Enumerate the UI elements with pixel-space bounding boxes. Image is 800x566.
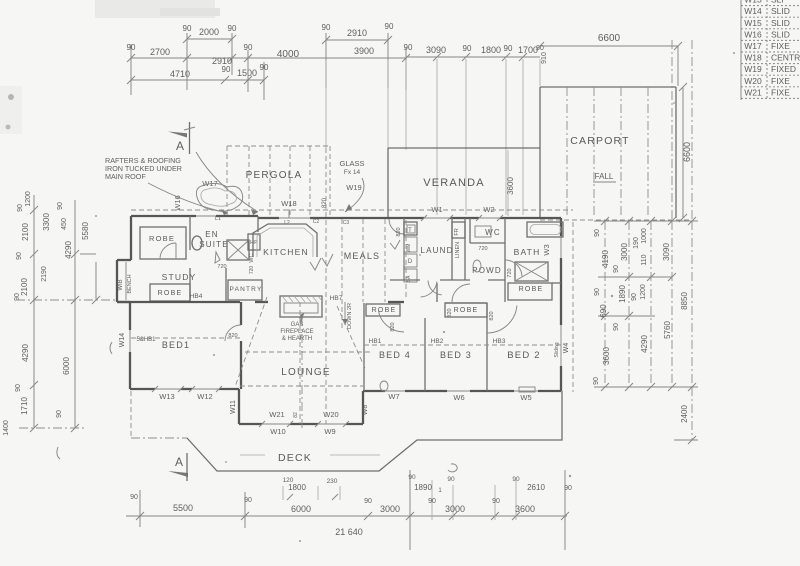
- svg-text:2100: 2100: [20, 278, 29, 296]
- svg-text:90: 90: [56, 410, 63, 418]
- svg-text:90: 90: [322, 23, 331, 32]
- svg-text:110: 110: [641, 254, 648, 265]
- carport posts dashed: [566, 87, 568, 218]
- svg-text:3900: 3900: [354, 46, 374, 56]
- robe bed2: [508, 283, 552, 300]
- svg-text:LOUNGE: LOUNGE: [281, 367, 330, 378]
- svg-text:1800: 1800: [288, 483, 306, 492]
- svg-text:C2: C2: [313, 219, 320, 225]
- dim left column inner: [33, 195, 35, 300]
- svg-text:5580: 5580: [81, 222, 90, 240]
- svg-text:WM: WM: [406, 244, 412, 253]
- wall bed4/bed3: [424, 318, 426, 391]
- svg-text:1000: 1000: [641, 228, 648, 244]
- svg-text:90: 90: [594, 229, 601, 237]
- window W14: [129, 330, 131, 352]
- svg-text:3000: 3000: [380, 504, 400, 514]
- svg-text:820: 820: [447, 308, 453, 317]
- svg-text:90: 90: [222, 65, 231, 74]
- dim top-left vertical rails: [130, 44, 132, 95]
- wall kitchen left: [257, 216, 259, 232]
- svg-text:90: 90: [512, 476, 520, 483]
- svg-text:820: 820: [396, 227, 402, 236]
- study robe box: [150, 284, 190, 301]
- svg-text:MEALS: MEALS: [344, 251, 381, 261]
- svg-text:WIB: WIB: [118, 279, 124, 290]
- svg-text:SLI: SLI: [771, 0, 784, 5]
- svg-text:90: 90: [16, 252, 23, 260]
- svg-text:EN: EN: [205, 230, 219, 239]
- svg-text:90: 90: [594, 288, 601, 296]
- wall left exterior upper: [130, 216, 132, 260]
- svg-text:W2: W2: [483, 205, 494, 214]
- window W5: [514, 390, 538, 392]
- wall bed4 left: [363, 303, 365, 391]
- ensuite shower: [227, 240, 249, 260]
- svg-text:3090: 3090: [426, 45, 446, 55]
- svg-text:SLID: SLID: [771, 6, 790, 16]
- svg-text:W14: W14: [119, 333, 126, 348]
- svg-text:90: 90: [613, 323, 620, 331]
- svg-text:C3: C3: [343, 220, 350, 226]
- svg-text:T: T: [408, 228, 412, 234]
- svg-text:90: 90: [613, 265, 620, 273]
- svg-text:BATH: BATH: [514, 247, 541, 257]
- svg-text:ROBE: ROBE: [454, 307, 479, 314]
- svg-text:4000: 4000: [277, 49, 300, 60]
- window W13: [155, 388, 181, 390]
- dim bottom main line: [126, 515, 567, 517]
- svg-text:1800: 1800: [481, 45, 501, 55]
- fireplace hearth box: [280, 296, 322, 317]
- svg-text:5500: 5500: [173, 503, 193, 513]
- svg-text:GLASS: GLASS: [339, 159, 364, 168]
- window W7: [385, 390, 405, 392]
- svg-text:HB2: HB2: [431, 338, 444, 345]
- svg-text:90: 90: [463, 44, 472, 53]
- svg-text:4290: 4290: [21, 344, 30, 362]
- svg-text:90: 90: [17, 204, 24, 212]
- svg-text:1710: 1710: [20, 397, 29, 415]
- svg-text:FIXE: FIXE: [771, 41, 790, 51]
- svg-text:W14: W14: [744, 6, 762, 16]
- svg-text:1200: 1200: [640, 284, 647, 300]
- svg-text:1: 1: [438, 488, 442, 494]
- dim top-left 2700/2910/4000 line: [131, 57, 330, 59]
- svg-text:820: 820: [322, 197, 328, 208]
- window W21/W10: [262, 423, 290, 425]
- svg-text:W17: W17: [744, 41, 762, 51]
- svg-text:720: 720: [249, 266, 255, 275]
- svg-text:ROBE: ROBE: [519, 286, 544, 293]
- svg-text:3600: 3600: [515, 504, 535, 514]
- scan smudge top: [95, 0, 215, 18]
- wall study bottom / corridor: [117, 301, 240, 303]
- dim top mid 2910/3900 lines: [326, 39, 388, 41]
- bath tub: [527, 222, 563, 237]
- dim top-left 4710/1500 line: [131, 79, 264, 81]
- window W16 W17 top: [196, 215, 216, 217]
- svg-text:ROBE: ROBE: [372, 307, 397, 314]
- svg-text:6600: 6600: [598, 33, 621, 44]
- svg-text:FR: FR: [454, 228, 460, 235]
- svg-text:L1: L1: [215, 216, 221, 222]
- svg-text:MAIN ROOF: MAIN ROOF: [105, 172, 146, 181]
- linen closet: [451, 218, 453, 280]
- HB labels dashed line: [364, 344, 561, 346]
- svg-text:1200: 1200: [25, 191, 32, 207]
- window W3: [560, 236, 562, 258]
- robe door arc: [160, 243, 176, 259]
- svg-text:SUITE: SUITE: [199, 240, 229, 249]
- svg-text:1700: 1700: [518, 45, 538, 55]
- svg-text:W7: W7: [388, 392, 399, 401]
- svg-text:DECK: DECK: [278, 452, 312, 464]
- pantry: [225, 268, 227, 302]
- svg-text:W1: W1: [431, 205, 442, 214]
- wall bottom bed1: [130, 388, 155, 390]
- svg-text:WC: WC: [485, 228, 501, 237]
- svg-text:720: 720: [507, 268, 513, 277]
- svg-text:LINEN: LINEN: [455, 242, 461, 258]
- svg-text:CENTR: CENTR: [771, 53, 800, 63]
- door arc meals-veranda: [389, 219, 404, 234]
- svg-text:90: 90: [244, 497, 252, 504]
- svg-text:ROBE: ROBE: [158, 290, 183, 297]
- svg-text:90: 90: [15, 384, 22, 392]
- window W12: [192, 388, 219, 390]
- svg-text:90: 90: [428, 498, 436, 505]
- wc room: [469, 218, 471, 243]
- svg-text:2610: 2610: [527, 483, 545, 492]
- svg-text:LAUND: LAUND: [420, 246, 453, 255]
- note arrow to wall: [148, 183, 228, 213]
- svg-text:3000: 3000: [620, 243, 629, 261]
- pergola outline dashed: [227, 145, 330, 147]
- scan specks: [611, 295, 613, 297]
- svg-text:FALL: FALL: [595, 172, 614, 181]
- dim top mid rails: [325, 33, 327, 88]
- svg-text:W15: W15: [744, 18, 762, 28]
- scan smudge left: [0, 86, 22, 134]
- svg-text:90: 90: [408, 474, 416, 481]
- svg-text:A: A: [175, 455, 183, 469]
- svg-text:VERANDA: VERANDA: [423, 177, 485, 189]
- window W6: [447, 390, 470, 392]
- svg-text:1500: 1500: [237, 68, 257, 78]
- wall ensuite left: [189, 216, 191, 250]
- svg-text:90: 90: [228, 24, 237, 33]
- svg-text:BED 4: BED 4: [379, 350, 411, 360]
- svg-text:90: 90: [564, 485, 572, 492]
- dim top-left 2000 line: [187, 38, 232, 40]
- svg-text:W6: W6: [453, 393, 464, 402]
- svg-text:230: 230: [327, 478, 338, 485]
- window schedule table: [740, 0, 742, 100]
- window W20/W9: [318, 423, 346, 425]
- wall hall bottom segments: [388, 301, 404, 303]
- wall WIB bump-out: [117, 259, 131, 261]
- robe room top-left: [140, 227, 186, 259]
- svg-text:90: 90: [57, 202, 64, 210]
- svg-text:6000: 6000: [62, 357, 71, 375]
- door circle bed4: [380, 381, 388, 391]
- dim right columns rails: [604, 221, 606, 387]
- svg-text:ROBE: ROBE: [149, 234, 175, 243]
- dim top construction rails down to plan: [325, 60, 327, 148]
- door arc bed1: [225, 325, 241, 341]
- wall bed3/bed2: [486, 303, 488, 391]
- window W2: [479, 217, 500, 219]
- svg-text:82: 82: [293, 412, 299, 418]
- svg-text:HB1: HB1: [369, 338, 382, 345]
- svg-text:2190: 2190: [41, 266, 48, 282]
- svg-text:4290: 4290: [64, 241, 73, 259]
- wall lounge right step: [362, 391, 364, 424]
- wall hall top y280: [390, 279, 420, 281]
- door arcs hall: [421, 282, 437, 298]
- window W4: [560, 325, 562, 366]
- bath shower: [515, 262, 548, 281]
- svg-text:910: 910: [541, 52, 548, 64]
- svg-text:PERGOLA: PERGOLA: [246, 170, 303, 181]
- svg-text:SLID: SLID: [771, 18, 790, 28]
- svg-text:2100: 2100: [21, 223, 30, 241]
- svg-text:W18: W18: [281, 199, 296, 208]
- svg-text:W20: W20: [744, 76, 762, 86]
- svg-text:W8: W8: [362, 405, 369, 416]
- dim top 3090/1800/1700 line: [406, 56, 540, 58]
- svg-text:3000: 3000: [445, 504, 465, 514]
- svg-text:FIREPLACE: FIREPLACE: [280, 329, 313, 335]
- wall lounge left step: [238, 389, 240, 424]
- bed4 robe: [366, 304, 400, 316]
- svg-text:DOWN 2R: DOWN 2R: [347, 303, 353, 329]
- dim left connector: [16, 299, 117, 301]
- svg-text:FIXE: FIXE: [771, 87, 790, 97]
- kitchen bench: [253, 224, 317, 257]
- svg-text:1400: 1400: [3, 420, 10, 436]
- svg-text:W16: W16: [173, 195, 182, 210]
- dim right tick rows: [594, 220, 698, 222]
- svg-text:W12: W12: [197, 392, 212, 401]
- svg-text:PANTRY: PANTRY: [230, 286, 263, 293]
- svg-text:1890: 1890: [414, 483, 432, 492]
- construction dashes through meals: [341, 219, 343, 330]
- stray mark C: [448, 464, 457, 472]
- svg-text:2910: 2910: [347, 28, 367, 38]
- svg-text:4290: 4290: [640, 335, 649, 353]
- svg-text:90: 90: [130, 494, 138, 501]
- section marker A top: [168, 132, 187, 138]
- svg-text:W11: W11: [230, 400, 237, 414]
- svg-text:720: 720: [217, 264, 226, 270]
- dim left bottom hook: [57, 447, 60, 459]
- svg-text:GAS: GAS: [291, 322, 304, 328]
- dim right 6600 vertical: [682, 87, 684, 218]
- svg-text:3600: 3600: [602, 347, 611, 365]
- svg-text:90: 90: [593, 377, 600, 385]
- svg-text:W3: W3: [542, 244, 551, 255]
- svg-text:3600: 3600: [506, 177, 515, 195]
- svg-text:SLID: SLID: [771, 29, 790, 39]
- veranda outline: [388, 147, 540, 149]
- svg-text:W10: W10: [270, 427, 285, 436]
- window W18 opening: [279, 217, 310, 219]
- svg-text:2700: 2700: [150, 47, 170, 57]
- svg-text:90: 90: [404, 43, 413, 52]
- svg-text:190: 190: [633, 237, 640, 249]
- bath room: [504, 218, 506, 302]
- lounge dashed ceiling lines: [245, 351, 373, 353]
- svg-text:450: 450: [61, 218, 68, 230]
- svg-text:W19: W19: [346, 183, 361, 192]
- svg-text:HB3: HB3: [493, 338, 506, 345]
- svg-text:W21: W21: [744, 87, 762, 97]
- svg-text:W19: W19: [744, 64, 762, 74]
- wall bed1 lounge divider: [240, 302, 242, 325]
- svg-text:FIXE: FIXE: [771, 76, 790, 86]
- svg-text:90: 90: [183, 24, 192, 33]
- eaves dashed right: [572, 222, 574, 392]
- stray pen marks: [390, 240, 400, 249]
- svg-text:W21: W21: [269, 410, 284, 419]
- svg-text:W4: W4: [563, 343, 570, 354]
- svg-text:BED 2: BED 2: [507, 350, 540, 361]
- svg-text:WC: WC: [249, 253, 255, 262]
- diag roof lines lounge: [235, 297, 267, 387]
- ensuite spa blob: [196, 183, 242, 211]
- svg-text:FIXED: FIXED: [771, 64, 796, 74]
- wall left exterior bed1: [129, 302, 131, 330]
- svg-text:690: 690: [599, 304, 608, 318]
- svg-text:W5: W5: [520, 393, 531, 402]
- door arc bed4: [378, 311, 404, 333]
- svg-text:BA: BA: [406, 275, 412, 282]
- svg-text:& HEARTH: & HEARTH: [282, 336, 312, 342]
- svg-text:90: 90: [631, 293, 638, 301]
- svg-text:A: A: [176, 139, 184, 153]
- svg-text:6000: 6000: [291, 504, 311, 514]
- door arc bed2: [487, 306, 517, 333]
- robe hall box: [445, 303, 487, 317]
- svg-text:CARPORT: CARPORT: [570, 135, 630, 147]
- meals robe right: [436, 283, 438, 302]
- wall right exterior: [560, 218, 562, 236]
- svg-text:BED1: BED1: [162, 340, 190, 350]
- svg-text:90: 90: [364, 498, 372, 505]
- svg-text:W16: W16: [744, 29, 762, 39]
- ensuite wc: [215, 252, 220, 263]
- down 2R stairs: [344, 302, 346, 325]
- svg-text:5760: 5760: [663, 321, 672, 339]
- svg-text:3300: 3300: [42, 213, 51, 231]
- wall bottom bedrooms: [363, 390, 385, 392]
- svg-text:90: 90: [492, 498, 500, 505]
- svg-text:POWD: POWD: [472, 266, 502, 275]
- svg-text:90: 90: [447, 476, 455, 483]
- svg-text:STUDY: STUDY: [162, 272, 197, 282]
- HP box: [248, 234, 260, 250]
- svg-text:BENCH: BENCH: [127, 274, 133, 293]
- svg-text:90: 90: [385, 22, 394, 31]
- carport outline: [540, 86, 676, 88]
- ensuite oval basin: [192, 236, 202, 250]
- dim top 6600 carport line: [540, 45, 678, 47]
- svg-text:KITCHEN: KITCHEN: [263, 247, 309, 257]
- laundry fixtures column: [404, 222, 417, 235]
- svg-text:2000: 2000: [199, 27, 219, 37]
- window W1: [424, 217, 450, 219]
- wall top exterior left section: [131, 215, 196, 217]
- svg-text:4190: 4190: [601, 250, 610, 268]
- dim bottom small ticks second row: [282, 486, 284, 500]
- dim bottom rails: [139, 490, 141, 527]
- svg-text:W9: W9: [324, 427, 335, 436]
- svg-text:90: 90: [504, 44, 513, 53]
- svg-text:1890: 1890: [618, 285, 627, 303]
- svg-text:2400: 2400: [680, 405, 689, 423]
- kitchen sink marks: [310, 258, 321, 270]
- svg-text:8850: 8850: [680, 292, 689, 310]
- svg-text:820: 820: [489, 311, 495, 320]
- wall lounge bottom: [239, 423, 262, 425]
- svg-text:W18: W18: [744, 53, 762, 63]
- svg-text:720: 720: [478, 246, 487, 252]
- FR box: [452, 222, 465, 238]
- dim left lower 4290/6000: [33, 300, 35, 428]
- svg-text:W13: W13: [744, 0, 762, 5]
- svg-text:6600: 6600: [682, 142, 692, 162]
- wall top kitchen section: [258, 217, 279, 219]
- deck dashed inner: [240, 454, 265, 456]
- svg-text:D: D: [408, 259, 413, 265]
- svg-text:3090: 3090: [662, 243, 671, 261]
- svg-text:W13: W13: [159, 392, 174, 401]
- svg-text:L2: L2: [284, 220, 290, 226]
- svg-text:HB7: HB7: [330, 295, 343, 302]
- svg-text:Fx 14: Fx 14: [344, 169, 361, 176]
- svg-text:21 640: 21 640: [335, 527, 363, 537]
- svg-text:BED 3: BED 3: [440, 350, 472, 360]
- svg-text:HB4: HB4: [190, 293, 203, 300]
- wall laundry left: [403, 218, 405, 280]
- svg-text:820: 820: [390, 322, 396, 331]
- wall top under veranda: [388, 217, 424, 219]
- deck outline: [131, 437, 187, 439]
